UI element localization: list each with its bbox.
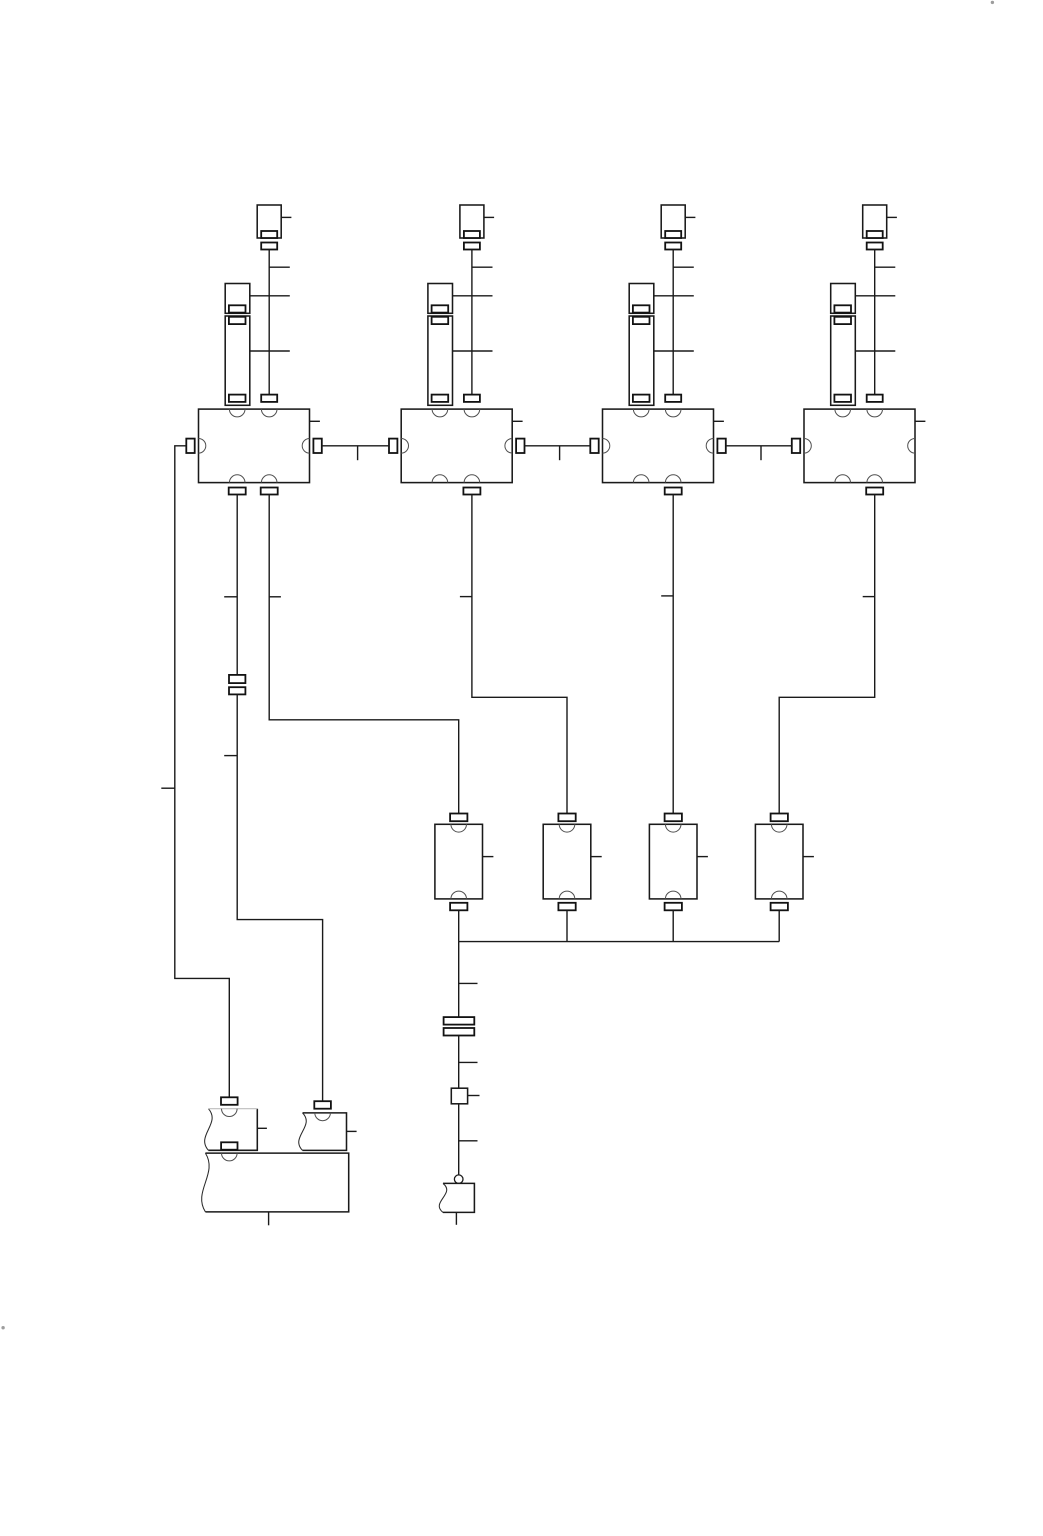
- wire: [268, 250, 270, 395]
- wire: [458, 1104, 460, 1175]
- socket arc bottom-left: [835, 475, 851, 483]
- wire stub: [875, 266, 896, 268]
- terminal pin X32:1: [633, 317, 650, 324]
- base unit X10 (torn edge): [205, 1153, 348, 1212]
- terminal pin X42:2: [834, 395, 851, 402]
- plug-socket pair X5 upper: [229, 675, 245, 683]
- pin A2:R: [516, 439, 524, 453]
- column 4 group: [792, 205, 926, 483]
- wire stub: [714, 420, 724, 422]
- relay K4 group: [755, 814, 814, 942]
- terminal pin X12:1: [229, 317, 246, 324]
- column 2 group: [389, 205, 523, 483]
- pin K1:B: [450, 903, 467, 911]
- wire: [458, 942, 460, 1018]
- wire stub: [459, 1061, 478, 1063]
- wire net B5: [779, 495, 875, 814]
- pin A3:B: [665, 488, 682, 495]
- wire stub: [224, 755, 237, 757]
- wire stub: [654, 350, 694, 352]
- contactor plug X12 lower: [225, 316, 250, 405]
- terminal pin X22:2: [432, 395, 449, 402]
- socket arc left: [199, 439, 206, 454]
- socket arc top: [559, 824, 575, 832]
- terminal pin X8:1: [221, 1097, 238, 1105]
- wire net B1 upper: [236, 495, 238, 675]
- terminal pin X31:2: [665, 243, 681, 250]
- wire stub: [654, 295, 694, 297]
- wire stub: [803, 856, 814, 858]
- terminal pin of X41: [867, 231, 883, 238]
- wire net B2: [269, 495, 459, 814]
- relay module K4: [755, 824, 803, 899]
- terminal pin of X21: [464, 231, 480, 238]
- pin A1:B2: [261, 488, 278, 495]
- breaker plug X21: [460, 205, 484, 238]
- pin A1:R: [313, 439, 321, 453]
- relay module K2: [543, 824, 591, 899]
- socket arc left: [603, 439, 610, 454]
- terminal pin X31:3: [665, 395, 681, 402]
- wire stub: [661, 595, 673, 597]
- wire stub: [453, 295, 493, 297]
- page mark bottom-left: [1, 1326, 4, 1329]
- wire stub: [855, 350, 895, 352]
- wire stub: [591, 856, 602, 858]
- terminal pin X22:1: [432, 317, 449, 324]
- socket arc X10: [222, 1153, 238, 1161]
- socket arc top-left: [229, 409, 245, 417]
- socket arc bottom: [771, 891, 787, 899]
- wire stub: [484, 216, 494, 218]
- plug-socket pair X6 lower: [444, 1028, 475, 1036]
- pin A1:B1: [229, 488, 246, 495]
- wire net B4: [672, 495, 674, 814]
- wire stub: [512, 420, 522, 422]
- pin A3:L: [590, 439, 598, 453]
- wire to bus: [778, 910, 780, 941]
- wire stub: [281, 216, 291, 218]
- pin K4:B: [771, 903, 788, 911]
- terminal pin X11:2: [261, 243, 277, 250]
- terminal pin of X22 upper: [432, 305, 449, 312]
- wire: [874, 250, 876, 395]
- breaker plug X41: [863, 205, 887, 238]
- wire stub: [310, 420, 320, 422]
- socket arc top: [665, 824, 681, 832]
- plug-socket pair X6 upper: [444, 1017, 475, 1025]
- logic gate U1 (torn edge): [443, 1183, 474, 1212]
- socket arc right: [505, 439, 512, 454]
- contactor plug X22 upper: [428, 284, 453, 314]
- terminal pin of X31: [665, 231, 681, 238]
- wire stub: [863, 596, 875, 598]
- contactor plug X32 lower: [629, 316, 654, 405]
- pin K3:T: [665, 814, 682, 822]
- wire stub: [161, 787, 175, 789]
- device module A4: [804, 409, 915, 483]
- wire stub: [269, 266, 290, 268]
- socket arc left: [401, 439, 408, 454]
- terminal pin X41:3: [867, 395, 883, 402]
- wire stub: [468, 1095, 480, 1097]
- relay K3 group: [649, 814, 708, 942]
- wire stub: [697, 856, 708, 858]
- wire stub: [453, 350, 493, 352]
- page mark top-right: [991, 1, 994, 4]
- relay module K3: [649, 824, 697, 899]
- device module A1: [199, 409, 310, 483]
- wire stub: [855, 295, 895, 297]
- wire to bus: [458, 910, 460, 941]
- pin A3:R: [717, 439, 725, 453]
- socket arc top-right: [464, 409, 480, 417]
- pin K3:B: [665, 903, 682, 911]
- socket arc bottom-left: [432, 475, 448, 483]
- plug block X8 (torn edge): [208, 1109, 257, 1151]
- wire stub: [915, 420, 925, 422]
- wire stub: [257, 1127, 267, 1129]
- pin A2:B: [463, 488, 480, 495]
- wire stub: [887, 216, 897, 218]
- wire stub: [472, 266, 493, 268]
- contactor plug X42 upper: [831, 284, 856, 314]
- wire to bus: [566, 910, 568, 941]
- pin A4:L: [792, 439, 800, 453]
- wire net B1 lower: [237, 694, 322, 1101]
- terminal pin X21:2: [464, 243, 480, 250]
- socket arc top-right: [665, 409, 681, 417]
- wire stub: [459, 1140, 478, 1142]
- junction block X7: [451, 1088, 467, 1104]
- socket arc bottom-left: [229, 475, 245, 483]
- wire stub: [347, 1130, 357, 1132]
- terminal pin of X32 upper: [633, 305, 650, 312]
- socket arc right: [302, 439, 309, 454]
- terminal pin X32:2: [633, 395, 650, 402]
- socket arc top-left: [835, 409, 851, 417]
- wire stub: [269, 596, 281, 598]
- wire stub: [250, 295, 290, 297]
- contactor plug X12 upper: [225, 284, 250, 314]
- socket arc bottom: [451, 891, 467, 899]
- socket arc top: [451, 824, 467, 832]
- socket arc top-right: [261, 409, 277, 417]
- inverting bubble: [454, 1175, 463, 1184]
- wire net L1: [175, 446, 230, 1098]
- wire to bus: [672, 910, 674, 941]
- wire: [458, 1036, 460, 1089]
- contactor plug X32 upper: [629, 284, 654, 314]
- wire stub: [685, 216, 695, 218]
- plug block X8 top edge: [208, 1108, 257, 1110]
- pin A1:L: [186, 439, 194, 453]
- relay K2 group: [543, 814, 602, 942]
- device module A3: [603, 409, 714, 483]
- wire stub: [483, 856, 494, 858]
- wire A3 to A4: [726, 445, 792, 447]
- wire: [471, 250, 473, 395]
- wire A2 to A3: [525, 445, 591, 447]
- device module A2: [401, 409, 512, 483]
- socket arc X9: [315, 1113, 331, 1121]
- wire stub: [460, 596, 472, 598]
- breaker plug X11: [257, 205, 281, 238]
- wire stub: [673, 266, 694, 268]
- socket arc top-left: [633, 409, 649, 417]
- socket arc bottom-right: [261, 475, 277, 483]
- socket arc X8: [222, 1109, 238, 1117]
- socket arc bottom: [665, 891, 681, 899]
- wire stub: [224, 596, 237, 598]
- wire stub: [250, 350, 290, 352]
- wire stub: [459, 982, 478, 984]
- socket arc bottom-right: [665, 475, 681, 483]
- pin K1:T: [450, 814, 467, 822]
- pin K2:T: [558, 814, 575, 822]
- plug block X9 (torn edge): [303, 1113, 347, 1151]
- socket arc bottom: [559, 891, 575, 899]
- terminal pin of X12 upper: [229, 305, 246, 312]
- terminal pin X42:1: [834, 317, 851, 324]
- plug-socket pair X5 lower: [229, 687, 245, 694]
- socket arc right: [908, 439, 915, 454]
- junction stub: [559, 446, 561, 460]
- socket arc top-left: [432, 409, 448, 417]
- socket arc left: [804, 439, 811, 454]
- pin A4:B: [866, 488, 883, 495]
- breaker plug X31: [661, 205, 685, 238]
- column 1 group: [186, 205, 320, 483]
- terminal pin of X42 upper: [834, 305, 851, 312]
- relay K1 group: [435, 814, 494, 942]
- terminal pin X9:1: [314, 1101, 331, 1109]
- terminal pin X12:2: [229, 395, 246, 402]
- junction stub: [760, 446, 762, 460]
- socket arc top-right: [867, 409, 883, 417]
- contactor plug X42 lower: [831, 316, 856, 405]
- terminal pin of X11: [261, 231, 277, 238]
- wire stub: [455, 1212, 457, 1224]
- wire: [672, 250, 674, 395]
- column 3 group: [590, 205, 724, 483]
- wire A1 to A2: [322, 445, 389, 447]
- wire stub: [268, 1212, 270, 1225]
- relay module K1: [435, 824, 483, 899]
- terminal pin X41:2: [867, 243, 883, 250]
- socket arc bottom-right: [464, 475, 480, 483]
- pin A2:L: [389, 439, 397, 453]
- socket arc top: [771, 824, 787, 832]
- terminal pin X11:3: [261, 395, 277, 402]
- pin K4:T: [771, 814, 788, 822]
- junction stub: [357, 446, 359, 460]
- wire net B3: [472, 495, 567, 814]
- socket arc bottom-left: [633, 475, 649, 483]
- socket arc bottom-right: [867, 475, 883, 483]
- pin K2:B: [558, 903, 575, 911]
- contactor plug X22 lower: [428, 316, 453, 405]
- terminal pin X21:3: [464, 395, 480, 402]
- socket arc right: [706, 439, 713, 454]
- terminal pin X8:2: [221, 1142, 237, 1149]
- bus wire: [459, 941, 780, 943]
